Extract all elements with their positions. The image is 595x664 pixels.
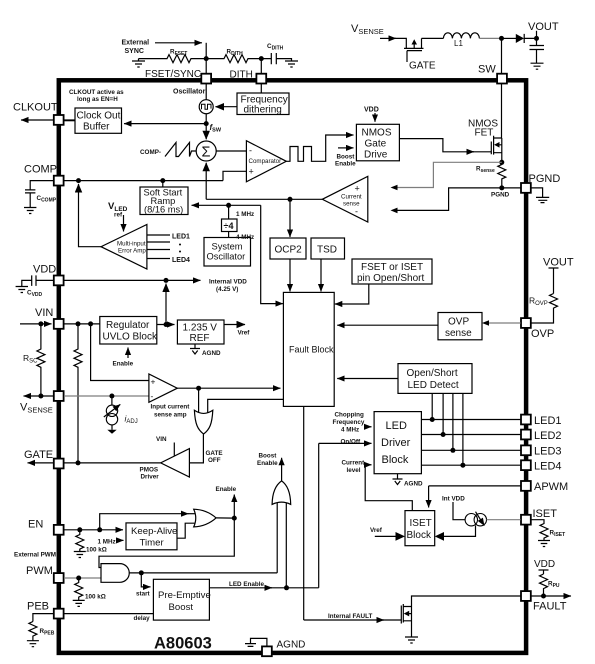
- svg-text:100 kΩ: 100 kΩ: [85, 594, 106, 601]
- wire open/short leg to LED3: [452, 393, 454, 450]
- svg-text:4 MHz: 4 MHz: [341, 427, 359, 434]
- svg-text:Driver: Driver: [381, 437, 411, 449]
- ground RISET: [538, 541, 550, 547]
- svg-text:Error Amp: Error Amp: [118, 248, 146, 255]
- svg-text:System: System: [212, 242, 243, 252]
- wire 1MHz line to fault block: [261, 205, 283, 303]
- wire VIN to input current sense amp plus: [91, 324, 149, 381]
- svg-text:Regulator: Regulator: [106, 320, 150, 331]
- op-amp Current sense: [322, 176, 368, 222]
- svg-text:DITH: DITH: [230, 70, 253, 81]
- svg-text:+: +: [249, 167, 254, 177]
- svg-text:LED1: LED1: [534, 415, 562, 427]
- node enable junction: [232, 516, 237, 521]
- svg-text:pin Open/Short: pin Open/Short: [357, 273, 424, 284]
- svg-text:VOUT: VOUT: [528, 21, 559, 33]
- wire APWM line: [429, 485, 521, 487]
- svg-text:SW: SW: [478, 64, 496, 76]
- OR gate gate-off: [194, 410, 212, 434]
- node comparator feed junction: [288, 197, 293, 202]
- block ISET Block: [405, 511, 435, 546]
- svg-text:NMOS: NMOS: [362, 128, 392, 139]
- signal Enable into regulator: [127, 348, 129, 359]
- svg-text:FSET/SYNC: FSET/SYNC: [145, 69, 201, 80]
- ground iADJ: [111, 425, 113, 430]
- node div4 junction: [226, 203, 231, 208]
- svg-text:GATE: GATE: [409, 61, 436, 72]
- svg-text:Σ: Σ: [202, 145, 211, 161]
- block 1.235 V REF: [177, 320, 224, 344]
- block Fault Block: [283, 292, 334, 406]
- wire LED2 line: [421, 434, 520, 436]
- signal chopping frequency into LED driver: [364, 426, 372, 428]
- wire FSET pin to oscillator: [205, 84, 207, 100]
- svg-text:Comparator: Comparator: [249, 158, 282, 165]
- pin LED4: [521, 460, 531, 470]
- svg-text:OVP: OVP: [531, 328, 554, 340]
- svg-text:CLKOUT active as: CLKOUT active as: [69, 89, 124, 96]
- svg-text:External PWM: External PWM: [14, 552, 56, 559]
- OR gate keep-alive: [194, 509, 216, 527]
- svg-text:-: -: [355, 207, 358, 217]
- wire OVP pin to OVP sense (gray): [487, 322, 521, 324]
- signal Enable arrow up: [233, 495, 235, 519]
- svg-text:+: +: [355, 184, 360, 194]
- wire PGND node to current sense minus: [397, 188, 502, 211]
- pin SW: [497, 74, 507, 84]
- svg-text:A80603: A80603: [154, 635, 212, 653]
- node start junction: [139, 570, 144, 575]
- wire error amp input 3: [147, 249, 170, 251]
- capacitor output cap: [530, 38, 545, 63]
- wire open/short to fault block: [337, 378, 398, 380]
- current source iADJ: [106, 405, 117, 416]
- wire regulator up to VDD line: [165, 284, 167, 325]
- node RSC bottom junction: [38, 394, 43, 399]
- block Keep-Alive Timer: [126, 523, 177, 550]
- arrow into current sense plus: [391, 185, 398, 191]
- svg-text:Enable: Enable: [335, 161, 356, 168]
- sawtooth ramp glyph: [165, 143, 196, 157]
- wire Vref output arrow: [224, 324, 245, 326]
- node LED3 junction: [450, 448, 455, 453]
- svg-text:sense: sense: [343, 201, 360, 208]
- wire VLED ref into error amp: [123, 215, 125, 232]
- block Frequency dithering: [237, 93, 289, 115]
- wire PEB to RPEB: [33, 614, 54, 622]
- svg-text:VDD: VDD: [364, 107, 379, 114]
- arrow into ISET block right: [435, 532, 444, 541]
- svg-text:Int VDD: Int VDD: [442, 496, 465, 503]
- wire LED4 line: [421, 464, 520, 466]
- transistor FAULT pulldown FET: [401, 604, 411, 631]
- External SYNC wire with arrow: [155, 42, 202, 44]
- block LED Driver Block: [374, 412, 421, 474]
- svg-text:UVLO Block: UVLO Block: [103, 332, 158, 343]
- svg-text:Frequency: Frequency: [333, 419, 365, 426]
- wire GATE out arrow: [28, 462, 54, 464]
- svg-text:VOUT: VOUT: [543, 257, 574, 269]
- signal Boost Enable arrow up: [281, 458, 283, 481]
- svg-text:PEB: PEB: [27, 601, 49, 613]
- oscillator circle: [199, 100, 213, 114]
- ground CVDD: [16, 287, 28, 293]
- node FAULT junction: [541, 594, 546, 599]
- wire VSENSE out arrow: [24, 395, 54, 397]
- svg-text:Oscillator: Oscillator: [207, 252, 246, 262]
- svg-text:(4.25 V): (4.25 V): [216, 286, 238, 293]
- dots between LED inputs: [179, 244, 181, 246]
- capacitor CCOMP: [25, 181, 53, 208]
- wire error amp input 2: [147, 241, 170, 243]
- resistor RPEB: [29, 622, 37, 641]
- svg-text:OFF: OFF: [208, 457, 221, 464]
- svg-text:LED Detect: LED Detect: [408, 380, 459, 391]
- PGND external ground wire: [531, 188, 542, 198]
- node SW junction: [499, 36, 504, 41]
- svg-text:COMP: COMP: [24, 164, 57, 176]
- wire to external PMOS source: [394, 38, 406, 48]
- block Soft Start Ramp: [140, 187, 188, 215]
- pin GATE left: [54, 459, 64, 469]
- svg-text:COMP-: COMP-: [140, 149, 161, 156]
- svg-text:(8/16 ms): (8/16 ms): [144, 205, 183, 215]
- pin LED2: [521, 430, 531, 440]
- wire APWM down to ISET block: [428, 486, 430, 508]
- svg-text:Vref: Vref: [238, 330, 251, 337]
- svg-text:sense amp: sense amp: [154, 412, 187, 419]
- wire LED enable up to boost OR: [285, 503, 287, 588]
- wire EN around to OR input: [100, 514, 189, 530]
- wire FAULT out arrow: [531, 595, 571, 597]
- svg-text:1 MHz: 1 MHz: [236, 211, 254, 218]
- pin EN: [54, 525, 64, 535]
- wire AND output: [129, 572, 277, 574]
- svg-text:LED1: LED1: [172, 234, 190, 241]
- svg-text:Input current: Input current: [151, 404, 191, 411]
- svg-text:Clock Out: Clock Out: [77, 111, 121, 122]
- svg-text:LED4: LED4: [172, 257, 190, 264]
- pin VIN: [54, 319, 64, 329]
- svg-text:VDD: VDD: [534, 559, 555, 570]
- svg-text:÷4: ÷4: [224, 221, 234, 231]
- wire COMP line: [64, 180, 223, 182]
- signal 1MHz into keep-alive: [117, 539, 124, 541]
- svg-text:ISET: ISET: [410, 518, 432, 529]
- wire Vref into ISET block: [375, 535, 396, 537]
- AGND pin ground symbol: [245, 644, 256, 647]
- wire frequency dithering to oscillator: [216, 106, 238, 108]
- svg-text:APWM: APWM: [534, 481, 568, 493]
- op-amp Multi-input Error Amp: [101, 225, 147, 270]
- wire LED1 error amp input: [147, 234, 170, 236]
- svg-text:GATE: GATE: [206, 450, 223, 457]
- wire junction to div4: [228, 205, 230, 219]
- pin FAULT: [521, 591, 531, 601]
- wire current source down to ISET block (gray): [443, 525, 476, 536]
- inductor L1: [443, 33, 479, 39]
- wire open/short leg to LED1: [431, 393, 433, 419]
- svg-text:L1: L1: [454, 39, 463, 48]
- wire LED4 error amp input: [147, 258, 170, 260]
- node EN pulldown junction: [77, 527, 82, 532]
- node error amp output junction: [76, 178, 81, 183]
- block OVP sense: [438, 313, 482, 340]
- svg-text:GATE: GATE: [24, 449, 53, 461]
- node regulator output junction: [164, 322, 169, 327]
- VIN external wire with arrow: [20, 323, 52, 325]
- wire GATE line: [64, 462, 161, 464]
- wire NMOS gate drive output to NMOS FET gate: [399, 139, 474, 152]
- svg-text:PWM: PWM: [26, 565, 53, 577]
- svg-text:OVP: OVP: [448, 317, 469, 328]
- ground PWM pulldown: [73, 600, 85, 606]
- wire comparator plus input from COMP line: [223, 171, 246, 180]
- block System Oscillator: [204, 238, 251, 267]
- wire fsw down to sigma with arrow: [205, 124, 207, 140]
- node gate pullup junction: [76, 321, 81, 326]
- node internal VDD junction: [164, 278, 169, 283]
- ground for RFSET: [132, 59, 145, 67]
- svg-text:-: -: [151, 391, 154, 401]
- node PGND junction: [499, 185, 504, 190]
- svg-text:Enable: Enable: [216, 486, 237, 493]
- wire CLKOUT out: [21, 119, 75, 121]
- wire On/Off into LED driver: [319, 442, 372, 444]
- node FSET junction: [204, 56, 209, 61]
- pin AGND bottom: [262, 646, 272, 656]
- svg-text:VIN: VIN: [35, 307, 53, 319]
- wire open/short leg to LED2: [442, 393, 444, 434]
- wire VDD into NMOS gate drive: [374, 113, 376, 122]
- pin CLKOUT: [54, 115, 64, 125]
- wire VOUT stub up: [536, 31, 538, 39]
- svg-text:long as EN=H: long as EN=H: [77, 96, 118, 103]
- pin APWM: [521, 481, 531, 491]
- ground RPEB: [27, 641, 39, 647]
- wire SW pin down to NMOS FET drain: [501, 84, 503, 138]
- node Rsense top junction: [499, 160, 504, 165]
- wire DITH down to pin: [260, 59, 262, 74]
- wire OCP2 to fault block: [289, 259, 291, 291]
- op-amp Comparator: [246, 141, 286, 182]
- svg-text:sense: sense: [445, 328, 472, 339]
- wire current sense output to pwm comparison line: [206, 198, 322, 200]
- svg-text:SYNC: SYNC: [125, 48, 144, 55]
- svg-text:FSET or ISET: FSET or ISET: [361, 262, 423, 273]
- wire clock out buffer to CLKOUT pin: [64, 120, 75, 122]
- svg-text:4 MHz: 4 MHz: [236, 234, 254, 241]
- pin LED1: [521, 415, 531, 425]
- wire VSENSE line to amp minus (gray): [64, 395, 149, 397]
- resistor Rsense: [498, 162, 506, 188]
- svg-text:Enable: Enable: [113, 361, 134, 368]
- svg-text:On/Off: On/Off: [341, 439, 361, 446]
- pin VSENSE left: [54, 391, 64, 401]
- external PMOS arrow: [412, 39, 418, 44]
- wire LED Enable output: [209, 587, 272, 589]
- wire open/short leg to LED4: [462, 393, 464, 465]
- wire LED enable to On/Off riser: [318, 443, 320, 587]
- node iADJ junction: [109, 394, 114, 399]
- comparator output squarewave glyph: [286, 147, 322, 162]
- ground EN pulldown: [74, 552, 86, 558]
- wire DITH pin to frequency dithering: [260, 84, 262, 93]
- resistor RDITH: [206, 55, 261, 63]
- VSENSE top wire with arrow: [380, 37, 396, 39]
- svg-text:AGND: AGND: [277, 640, 306, 651]
- resistor RFSET: [139, 55, 207, 63]
- svg-text:Fault Block: Fault Block: [289, 345, 334, 355]
- resistor EN pulldown 100k: [76, 530, 84, 552]
- wire L1 to SW node (gray): [479, 37, 501, 39]
- svg-text:FET: FET: [475, 128, 494, 139]
- svg-text:Keep-Alive: Keep-Alive: [131, 526, 177, 537]
- svg-text:Pre-Emptive: Pre-Emptive: [158, 590, 211, 601]
- wire LED3 line: [421, 449, 520, 451]
- wire FSET/ISET box to fault block: [335, 284, 369, 304]
- svg-text:-: -: [249, 146, 252, 156]
- transistor NMOS FET: [491, 136, 502, 163]
- svg-text:100 kΩ: 100 kΩ: [86, 547, 107, 554]
- svg-text:Timer: Timer: [140, 538, 165, 549]
- node EN branch junction: [97, 527, 102, 532]
- block Clock Out Buffer: [75, 108, 122, 133]
- svg-text:Boost: Boost: [169, 602, 194, 613]
- wire OVP sense to fault block: [337, 324, 438, 326]
- arrow into current sense minus: [391, 208, 398, 214]
- wire sigma bottom input arrow: [205, 163, 207, 200]
- node LED enable junction: [284, 585, 289, 590]
- svg-text:REF: REF: [190, 333, 210, 344]
- wire current level to ISET block: [365, 465, 412, 511]
- ground for CDITH: [285, 61, 298, 67]
- AND gate PWM: [101, 564, 129, 583]
- svg-text:Multi-input: Multi-input: [117, 241, 146, 248]
- pin PGND: [521, 183, 531, 193]
- node PWM pulldown junction: [76, 576, 81, 581]
- pin LED3: [521, 445, 531, 455]
- svg-text:+: +: [151, 377, 156, 387]
- svg-text:ISET: ISET: [533, 508, 558, 520]
- wire sense amp output to fault block: [177, 387, 280, 389]
- svg-text:Internal VDD: Internal VDD: [209, 279, 247, 286]
- svg-text:EN: EN: [28, 519, 43, 531]
- VDD tap bar: [539, 570, 549, 574]
- wire OR output to PMOS driver: [190, 434, 204, 463]
- node gate pullup bottom junction: [76, 460, 81, 465]
- ground output cap: [531, 63, 544, 69]
- svg-text:CLKOUT: CLKOUT: [13, 102, 58, 114]
- current source arrow: [476, 512, 485, 526]
- wire comparator output to NMOS gate drive: [322, 135, 354, 161]
- svg-text:FAULT: FAULT: [533, 601, 567, 613]
- resistor RSC: [37, 324, 45, 396]
- diode output rectifier: [516, 34, 524, 43]
- wire 1MHz line into soft start: [192, 204, 261, 206]
- pin PEB: [54, 609, 64, 619]
- block Open/Short LED Detect: [398, 364, 472, 394]
- arrow Vref into ISET block: [396, 532, 406, 541]
- wire div4 to system oscillator: [228, 232, 230, 238]
- wire Internal FAULT: [304, 619, 384, 621]
- pin OVP: [521, 318, 531, 328]
- resistor RPU: [540, 574, 548, 596]
- wire PMOS drain to L1: [422, 37, 444, 39]
- oscillator squarewave glyph: [202, 104, 212, 109]
- svg-text:OCP2: OCP2: [275, 245, 303, 256]
- OR gate boost enable: [272, 481, 291, 505]
- node DITH junction: [259, 56, 264, 61]
- svg-text:dithering: dithering: [244, 105, 282, 116]
- wire oscillator down to fsw node: [205, 114, 207, 124]
- wire Rsense top to current sense plus (gray): [397, 162, 502, 187]
- block divide by 4: [222, 219, 238, 232]
- svg-text:Oscillator: Oscillator: [173, 89, 206, 96]
- pin COMP: [54, 176, 64, 186]
- pin DITH: [256, 74, 266, 84]
- block Pre-Emptive Boost: [153, 579, 209, 620]
- ground FAULT FET: [405, 631, 418, 643]
- node LED4 junction: [460, 463, 465, 468]
- wire junction down to OCP2: [289, 199, 291, 237]
- block Regulator UVLO Block: [100, 317, 157, 345]
- wire current source to ISET pin (gray): [487, 519, 521, 521]
- svg-text:AGND: AGND: [202, 350, 221, 357]
- svg-text:PGND: PGND: [491, 192, 510, 199]
- capacitor CVDD: [22, 275, 54, 286]
- svg-text:ref: ref: [114, 212, 123, 219]
- AGND pin ground wire: [251, 638, 267, 646]
- wire Int VDD to current source: [453, 502, 465, 520]
- svg-text:LED2: LED2: [534, 430, 562, 442]
- node gate off junction: [196, 386, 201, 391]
- op-amp Input current sense amp: [149, 374, 177, 402]
- svg-text:PGND: PGND: [529, 173, 561, 185]
- block FSET or ISET pin Open/Short: [352, 259, 432, 284]
- arrow into OVP sense box: [482, 320, 489, 326]
- wire error amp output to COMP node: [79, 184, 102, 247]
- wire fsw to clock out buffer: [124, 123, 206, 125]
- PGND ground symbol: [536, 197, 549, 202]
- wire fault block down to internal fault: [303, 406, 305, 620]
- pin VDD left: [54, 276, 64, 286]
- svg-text:Drive: Drive: [364, 150, 388, 161]
- svg-text:VDD: VDD: [33, 264, 56, 276]
- wire LED1 line: [421, 419, 520, 421]
- svg-text:level: level: [347, 467, 361, 474]
- transistor external PMOS: [404, 38, 424, 62]
- wire keep-alive output to OR: [177, 523, 196, 538]
- svg-text:Driver: Driver: [141, 474, 160, 481]
- wire regulator to REF: [157, 324, 175, 326]
- svg-text:1.235 V: 1.235 V: [183, 323, 218, 334]
- svg-text:Boost: Boost: [259, 453, 278, 460]
- block OCP2: [270, 238, 306, 259]
- svg-text:start: start: [136, 591, 151, 598]
- wire VIN line inside: [64, 323, 100, 325]
- svg-text:External: External: [122, 40, 150, 47]
- node soft start junction: [160, 178, 165, 183]
- wire SW node to diode: [502, 37, 517, 39]
- wire fault block to OR gate input: [208, 399, 284, 413]
- wire soft start stub: [162, 181, 164, 187]
- svg-text:LED4: LED4: [534, 461, 562, 473]
- wire AND output up to boost OR: [276, 503, 278, 573]
- capacitor CDITH: [261, 53, 291, 64]
- svg-text:Chopping: Chopping: [335, 412, 365, 419]
- resistor ROVP: [531, 294, 557, 324]
